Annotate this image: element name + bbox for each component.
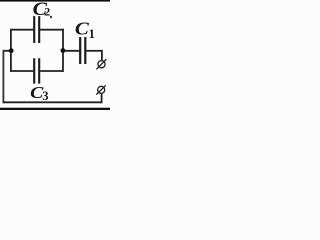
stray ink mark [50, 16, 52, 18]
wire bottom branch right (C3 right plate to loop bottom-right corner) [40, 70, 63, 72]
node B junction dot [61, 48, 66, 53]
label C2 [33, 0, 48, 20]
wire node B to C1 left plate [63, 50, 79, 52]
wire loop right vertical [62, 29, 64, 72]
svg-text:1: 1 [89, 27, 95, 41]
top rule bar [0, 0, 110, 2]
wire top terminal drop [101, 50, 103, 61]
wire top branch left (loop top-left corner to C2 left plate) [11, 29, 33, 31]
capacitor C1 plates [80, 37, 85, 64]
svg-text:2: 2 [44, 5, 50, 19]
label C3 [30, 83, 44, 101]
terminal bottom (open circle with slash) [96, 85, 105, 94]
capacitor C2 plates [34, 16, 39, 43]
wire loop left vertical [10, 29, 12, 72]
capacitor C3 plates [34, 58, 39, 83]
wire bottom branch left (loop bottom-left corner to C3 left plate) [11, 70, 33, 72]
wire bottom terminal stub [101, 93, 103, 103]
wire outer left vertical [2, 50, 4, 103]
terminal top (open circle with slash) [96, 59, 106, 69]
wire C1 right plate to top terminal corner [86, 50, 102, 52]
wire bottom horizontal [3, 101, 102, 103]
wire top branch right (C2 right plate to loop top-right corner) [40, 29, 64, 31]
svg-text:3: 3 [42, 89, 48, 103]
label C1 [75, 20, 90, 39]
node A junction dot [9, 48, 14, 53]
bottom rule bar [0, 108, 110, 110]
wire left tap from node A to outer left wire [3, 50, 11, 52]
